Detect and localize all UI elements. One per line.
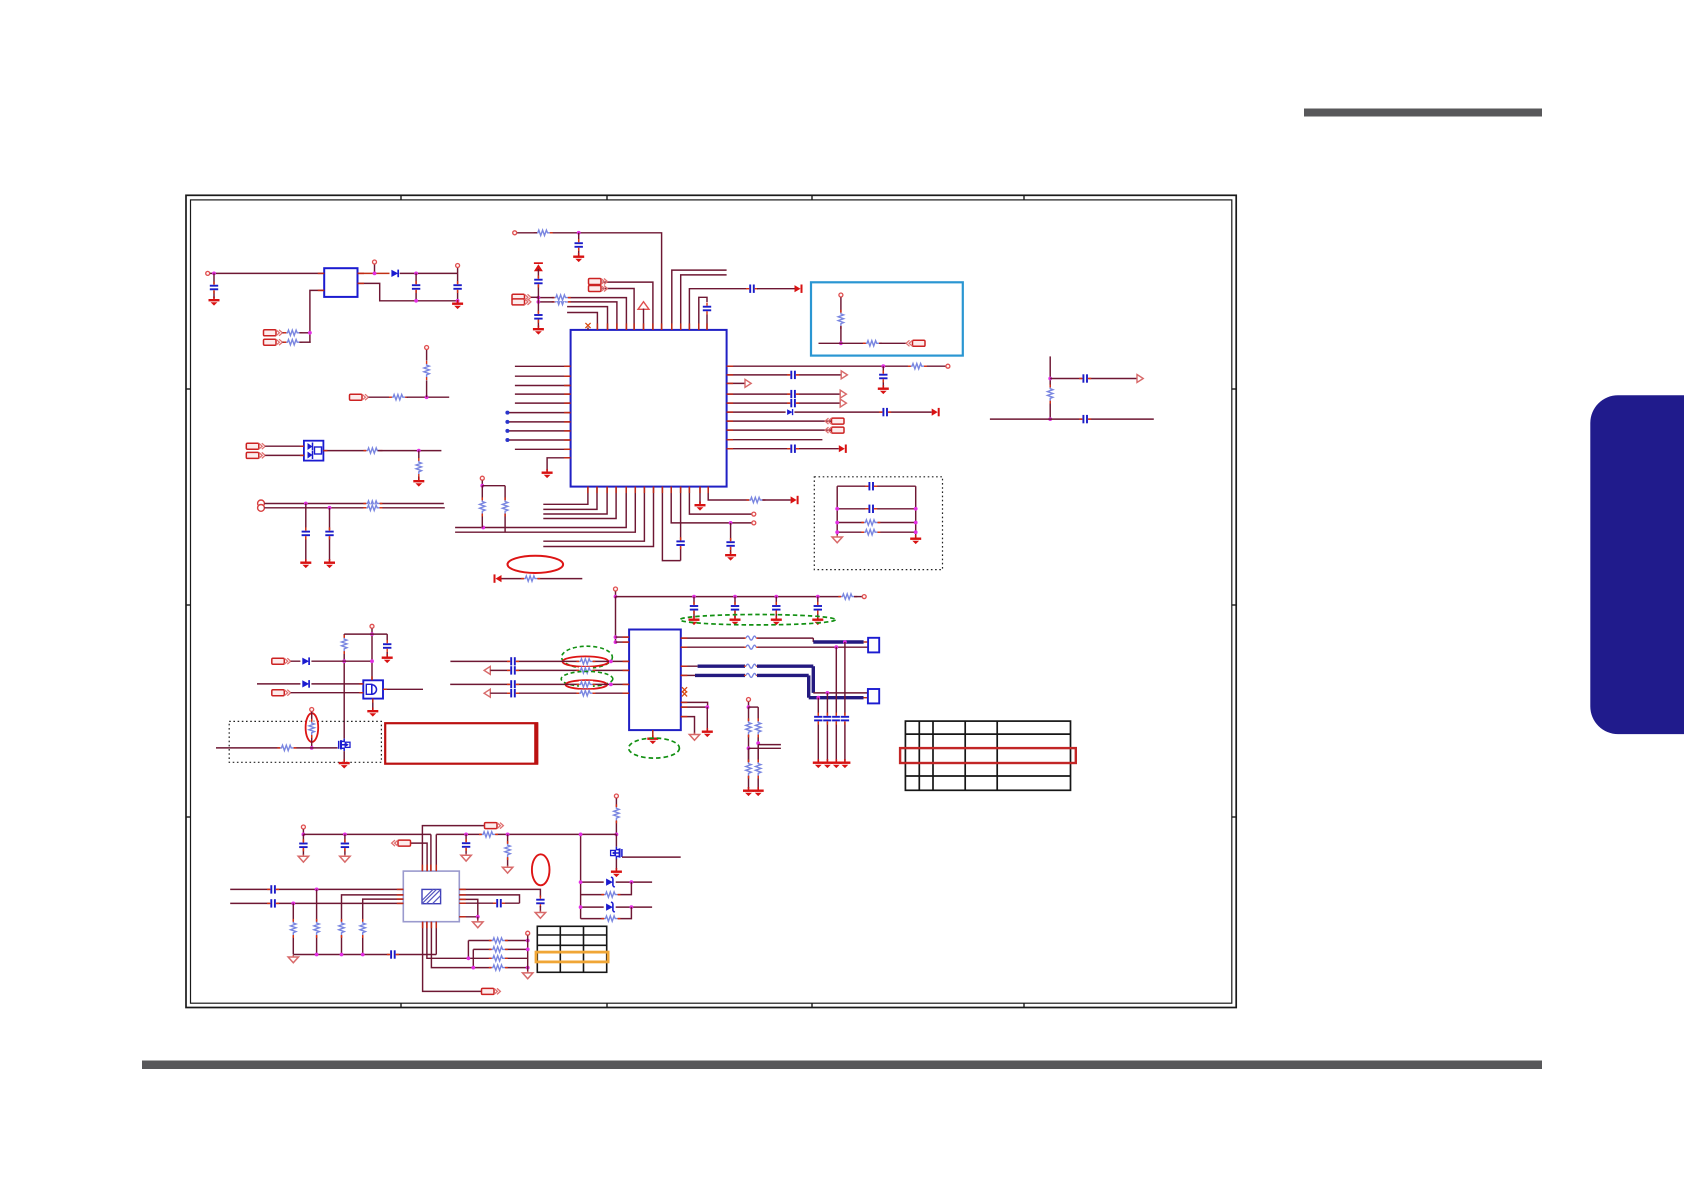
- resistor R29: [745, 760, 752, 779]
- resistor R28: [755, 718, 762, 737]
- wire cap drop: [302, 834, 304, 855]
- wire loop B: [581, 907, 632, 919]
- resistor R18: [1047, 385, 1054, 404]
- wire U1 right pin10: [727, 448, 839, 450]
- wire U1 right pin8: [727, 429, 838, 431]
- ground: [831, 759, 842, 768]
- ground: [832, 535, 842, 543]
- connector tag T10: [485, 823, 504, 829]
- resistor R21: [521, 575, 540, 582]
- power flag arrow: [932, 408, 940, 416]
- junction: [692, 595, 696, 599]
- bottom gray rule bar: [142, 1061, 1542, 1070]
- capacitor C27: [382, 640, 392, 652]
- resistor R35: [601, 915, 620, 922]
- node: [862, 595, 866, 599]
- junction: [343, 833, 347, 837]
- capacitor bypass: [771, 602, 781, 614]
- junction: [1048, 377, 1052, 381]
- resistor R2: [283, 329, 302, 336]
- wire U1 left pin10: [515, 448, 571, 450]
- wire line A cont: [344, 660, 372, 662]
- wire U1 left pin y=385.5: [515, 385, 571, 387]
- ground: [689, 616, 700, 625]
- wire R2 to node: [299, 332, 310, 334]
- wire T3: [531, 296, 538, 298]
- wire C34 bottom: [539, 906, 541, 912]
- junction: [733, 595, 737, 599]
- wire U1 right pin5: [727, 402, 840, 404]
- wire cap drop: [578, 233, 580, 255]
- frame zone ticks left: [186, 388, 191, 390]
- ferrite FB1: [744, 635, 758, 642]
- sheet frame outer border: [186, 195, 1236, 1007]
- op-amp U1 main controller IC: [571, 330, 727, 487]
- wire U1 left pin y=394.1: [515, 393, 571, 395]
- wire U2 right line4 thick: [681, 674, 695, 676]
- capacitor C10: [533, 311, 543, 323]
- junction: [414, 272, 418, 276]
- ground: [753, 787, 764, 796]
- ground: [382, 654, 393, 663]
- wire X1 left pin4: [230, 902, 403, 904]
- ground: [743, 787, 754, 796]
- wire U1 top pin4: [554, 302, 617, 330]
- wire pulldown: [418, 451, 420, 459]
- node: [480, 476, 484, 480]
- wire ladder left: [836, 486, 838, 535]
- wire U1 top pin5: [554, 298, 627, 330]
- arrow out: [841, 371, 847, 379]
- wire U1 right pin9: [727, 439, 823, 441]
- resistor R26: [576, 690, 595, 697]
- resistor R16: [863, 340, 882, 347]
- capacitor C26: [507, 688, 519, 698]
- wire U1 bottom pin5: [455, 487, 626, 528]
- wire shunt drop x=827.4: [826, 693, 828, 761]
- power flag arrow: [791, 496, 799, 504]
- resistor R5: [423, 361, 430, 380]
- wire U1 left pin y=412.6: [507, 412, 570, 414]
- wire U3 enable: [310, 290, 324, 341]
- ground: [535, 911, 545, 919]
- wire U1 right pin2: [727, 374, 841, 376]
- ground: [812, 616, 823, 625]
- capacitor shunt: [840, 713, 850, 725]
- wire line3 to box2: [813, 692, 868, 694]
- wire net V1 vertical: [1049, 356, 1051, 419]
- wire U2 bottom pin: [652, 730, 654, 736]
- wire gnd drop: [706, 707, 708, 729]
- wire R3 to node: [299, 341, 310, 343]
- wire U1 bottom pin2: [543, 487, 597, 510]
- arrow out: [1137, 375, 1143, 383]
- diode DZ2: [604, 902, 616, 912]
- regulator U3: [324, 268, 357, 297]
- wire pair1 P: [450, 660, 629, 662]
- wire U3 out: [358, 272, 391, 274]
- wire Q1 source: [343, 751, 345, 761]
- wire rail to U2: [615, 597, 617, 643]
- node: [513, 231, 517, 235]
- wire cap drop: [730, 523, 732, 553]
- wire U1 bottom pin14: [708, 487, 749, 500]
- junction: [835, 521, 839, 525]
- junction: [747, 705, 751, 709]
- wire res drop: [507, 834, 509, 866]
- capacitor C17: [879, 407, 891, 417]
- wire bridge: [749, 706, 759, 708]
- wire X1 left pin1: [230, 888, 403, 890]
- junction: [577, 231, 581, 235]
- junction: [816, 696, 820, 700]
- wire box net: [819, 342, 866, 344]
- wire X1 bottom pin2: [427, 922, 470, 959]
- wire shunt drop x=844.9: [844, 642, 846, 761]
- capacitor C20: [1079, 414, 1091, 424]
- wire gate out: [383, 688, 423, 690]
- connector tag EN2: [264, 339, 283, 345]
- wire V1 h2: [990, 418, 1154, 420]
- connector tag T5: [906, 340, 925, 346]
- wire U1 top pin6: [602, 289, 634, 330]
- wire U2 right line1: [681, 637, 814, 639]
- wire right branch: [386, 634, 388, 641]
- connector box CN1: [868, 638, 879, 653]
- connector tag KB1: [246, 443, 265, 449]
- resistor R4: [389, 394, 408, 401]
- wire U2 gnd pinC: [681, 717, 695, 734]
- wire U1 left pin y=366.3: [515, 365, 571, 367]
- capacitor C2: [411, 281, 421, 293]
- wire U1 bottom pin12: [689, 487, 751, 514]
- connector tag T3: [512, 294, 531, 300]
- capacitor C33: [387, 950, 399, 960]
- connector J1 circles: [258, 500, 265, 507]
- junction: [291, 902, 295, 906]
- capacitor C14: [787, 370, 799, 380]
- connector tag KB2: [246, 452, 265, 458]
- junction: [579, 880, 583, 884]
- junction: [328, 506, 332, 510]
- wire mosfet gate line: [216, 747, 338, 749]
- capacitor C29: [340, 839, 350, 851]
- ground: [300, 559, 311, 568]
- dashed box DB2: [229, 721, 381, 762]
- table T2: [537, 926, 606, 972]
- wire R12 out: [762, 499, 790, 501]
- capacitor C23: [507, 656, 519, 666]
- junction: [370, 659, 374, 663]
- wire KB1: [265, 445, 304, 447]
- wire col top: [481, 481, 483, 486]
- capacitor C30: [461, 839, 471, 851]
- junction: [729, 521, 733, 525]
- wire X1 left pin3: [363, 899, 404, 916]
- wire colB: [757, 707, 759, 762]
- diode DZ1: [604, 877, 616, 887]
- capacitor C18: [787, 444, 799, 454]
- junction: [471, 966, 475, 970]
- node: [752, 521, 756, 525]
- node pin dot: [505, 420, 509, 424]
- wire pair2 P: [450, 683, 629, 685]
- wire cap C2: [415, 273, 417, 300]
- capacitor bypass: [689, 602, 699, 614]
- wire row3: [470, 957, 528, 959]
- wire right rail: [436, 833, 616, 835]
- wire U1 bottom pin8: [543, 487, 653, 547]
- junction: [476, 915, 480, 919]
- highlight red ellipse E2: [563, 656, 609, 666]
- capacitor C35: [493, 898, 505, 908]
- wire X1 right pin1: [459, 889, 540, 897]
- capacitor C19: [1079, 374, 1091, 384]
- wire cap drop x=817.8: [817, 597, 819, 618]
- resistor R23: [576, 658, 595, 665]
- ferrite FB4: [744, 672, 758, 679]
- wire line4 thick cont: [757, 674, 809, 677]
- wire row1: [468, 940, 527, 942]
- ground: [461, 853, 471, 861]
- wire U1 bottom gnd pin: [699, 487, 701, 504]
- connector tag T6: [825, 418, 844, 424]
- capacitor C4: [301, 527, 311, 539]
- arrow left: [484, 689, 490, 697]
- junction: [1048, 417, 1052, 421]
- wire tag to R4: [369, 396, 391, 398]
- wire line1 step: [812, 638, 814, 642]
- wire gate gnd: [372, 699, 374, 709]
- highlight green ellipse G4: [629, 738, 680, 758]
- wire Q2 gate out: [622, 856, 681, 858]
- resistor R44: [489, 946, 508, 953]
- resistor R40: [313, 919, 320, 938]
- ground: [822, 759, 833, 768]
- connector tag T7: [825, 427, 844, 433]
- connector tag T12: [482, 988, 501, 994]
- wire U1 bottom pin4: [543, 487, 616, 519]
- wire VIN to regulator U3: [210, 272, 324, 274]
- wire pair1 N: [490, 669, 629, 671]
- wire diode to caps: [400, 272, 458, 274]
- ground: [910, 535, 921, 544]
- navy side tab: [1590, 395, 1684, 734]
- junction: [839, 341, 843, 345]
- diode D7: [786, 409, 795, 416]
- resistor R12: [746, 497, 765, 504]
- wire line3 thick cont: [757, 665, 813, 668]
- capacitor C3: [453, 281, 463, 293]
- wire col bridge: [482, 485, 505, 487]
- wire line4 thick bottom: [809, 696, 864, 699]
- wire col1: [292, 903, 294, 954]
- resistor R27: [745, 718, 752, 737]
- node: [752, 512, 756, 516]
- wire R6 out: [378, 450, 442, 452]
- junction: [609, 683, 613, 687]
- pin stub pwr: [643, 309, 645, 330]
- top gray title bar: [1304, 109, 1542, 117]
- wire cap drop x=735.0: [734, 597, 736, 618]
- resistor R6: [364, 447, 383, 454]
- wire rung2: [837, 508, 916, 510]
- wire pair line1: [264, 503, 443, 505]
- junction: [630, 905, 634, 909]
- wire diode line A: [291, 660, 345, 662]
- node VOUT stub: [374, 265, 376, 274]
- ground: [725, 552, 736, 561]
- wire gate in B: [257, 683, 363, 685]
- dual diode D6: [304, 441, 324, 461]
- resistor R30: [755, 760, 762, 779]
- capacitor C1: [209, 282, 219, 294]
- ground: [813, 759, 824, 768]
- wire U1 top pin13 loop: [699, 297, 707, 330]
- junction: [537, 296, 541, 300]
- node pin dot: [505, 429, 509, 433]
- junction: [370, 632, 374, 636]
- junction: [537, 300, 541, 304]
- wire U1 right pin1: [727, 365, 946, 367]
- junction: [315, 953, 319, 957]
- wire U1 left pin y=421.9: [507, 421, 570, 423]
- wire R11 left: [538, 301, 553, 303]
- resistor R38: [504, 841, 511, 860]
- wire stub outA: [758, 744, 781, 746]
- logic gate U4: [363, 680, 383, 698]
- junction: [526, 939, 530, 943]
- connector tag T8: [272, 658, 291, 664]
- wire U2 right line3 thick: [681, 665, 698, 667]
- pin no-connect marks: [682, 687, 687, 692]
- arrow out: [745, 379, 751, 387]
- wire col2: [316, 889, 318, 954]
- wire gate in C: [291, 692, 364, 694]
- pin stub X no-connect: [587, 328, 589, 330]
- wire U1 top pin3: [567, 307, 607, 330]
- node rail left top: [301, 825, 305, 829]
- wire C8 bottom: [706, 315, 708, 330]
- capacitor C16: [787, 398, 799, 408]
- junction: [342, 659, 346, 663]
- wire U2 vcc pin1: [616, 636, 630, 638]
- wire row4: [475, 967, 528, 969]
- wire R16 to tag: [879, 342, 906, 344]
- node: [747, 698, 751, 702]
- capacitor shunt: [813, 713, 823, 725]
- ground: [340, 854, 350, 862]
- wire R5 bottom: [426, 380, 428, 397]
- highlight ellipse E1: [508, 556, 564, 573]
- arrow left terminal: [494, 574, 502, 582]
- ground: [473, 920, 483, 928]
- resistor R9: [363, 504, 382, 511]
- pin stubs red overlay: [596, 323, 598, 330]
- wire U1 top pin10: [672, 270, 727, 330]
- wire X1 top pin4: [435, 834, 437, 871]
- junction: [414, 299, 418, 303]
- wire U1 left pin y=403.1: [515, 402, 571, 404]
- wire X1 top pin1: [422, 826, 486, 872]
- wire left branch: [343, 634, 345, 739]
- wire ladder left vertical: [580, 834, 582, 918]
- wire U1 top pin9 long: [549, 233, 661, 330]
- wire zener line B: [581, 906, 653, 908]
- resistor R37: [479, 831, 498, 838]
- resistor R41: [338, 919, 345, 938]
- wire V1 h1: [1050, 378, 1136, 380]
- power flag arrow: [795, 285, 803, 293]
- wire loop A: [581, 882, 632, 895]
- ground: [324, 559, 335, 568]
- wire cap bottom: [386, 652, 388, 656]
- connector box CN2: [868, 689, 879, 703]
- junction: [881, 364, 885, 368]
- junction: [774, 595, 778, 599]
- arrow out: [840, 399, 846, 407]
- node: [310, 708, 314, 712]
- wire C7 to flag: [757, 288, 795, 290]
- wire R10 left: [538, 297, 553, 299]
- capacitor C28: [298, 839, 308, 851]
- wire col2: [504, 486, 506, 533]
- junction: [609, 660, 613, 664]
- ground: [452, 300, 463, 309]
- capacitor C11: [676, 537, 686, 549]
- node top-right circle: [457, 268, 459, 273]
- wire U1 left pin y=440.0: [507, 439, 570, 441]
- capacitor C5: [325, 527, 335, 539]
- wire U1 top pin12: [689, 289, 747, 330]
- wire U1 bottom pin6: [455, 487, 635, 533]
- junction: [304, 502, 308, 506]
- ground: [523, 971, 533, 979]
- capacitor C13: [878, 371, 888, 383]
- junction: [579, 833, 583, 837]
- ground: [542, 469, 553, 478]
- wire U1 bottom pin10: [671, 487, 751, 523]
- diode D2: [300, 679, 311, 688]
- ground: [367, 708, 378, 717]
- junction: [614, 595, 618, 599]
- junction: [826, 691, 830, 695]
- table highlight red row: [900, 748, 1076, 763]
- junction: [310, 746, 314, 750]
- power flag: [638, 302, 649, 310]
- power arrow VCC: [534, 262, 543, 271]
- wire rung3: [837, 522, 916, 524]
- ground: [209, 297, 220, 306]
- resistor R10: [552, 294, 571, 301]
- wire U1 left pin y=376.2: [515, 375, 571, 377]
- node pullup top: [839, 293, 843, 297]
- wire cap drop1: [305, 504, 307, 561]
- frame zone ticks bottom: [400, 1003, 402, 1007]
- wire D6 output: [323, 450, 368, 452]
- wire stub box2: [864, 697, 868, 699]
- junction: [816, 595, 820, 599]
- wire X1 left pin2: [342, 895, 404, 917]
- wire cap drop: [882, 366, 884, 386]
- wire U1 right pin6: [727, 411, 932, 413]
- junction: [614, 635, 618, 639]
- capacitor C8: [702, 303, 712, 315]
- capacitor shunt: [831, 713, 841, 725]
- wire U1 top pin8: [602, 282, 653, 330]
- resistor R3: [283, 339, 302, 346]
- ground: [702, 728, 713, 737]
